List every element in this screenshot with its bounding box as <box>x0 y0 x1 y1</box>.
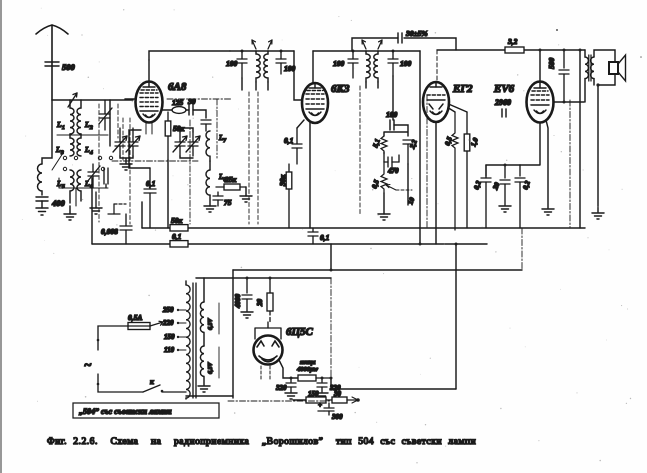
svg-text:150: 150 <box>308 390 319 398</box>
wire EV6 cathode <box>520 123 540 166</box>
IFT2 trimmer arrow <box>362 40 366 49</box>
coil L4 <box>77 134 81 156</box>
variable capacitor C1a (tuning) <box>113 128 127 156</box>
ground (speaker) <box>592 213 604 219</box>
tube 6K3 electrodes <box>306 84 324 116</box>
capacitor 400 <box>36 197 48 201</box>
wire EV6 cathode ground branch <box>546 120 548 208</box>
tube 6A8 electrodes <box>140 60 158 118</box>
ground (filter 2) <box>316 393 328 399</box>
tube EV6 envelope <box>527 82 554 123</box>
svg-text:100: 100 <box>333 59 345 68</box>
svg-text:Фиг. 2.2.6. Схема на радиоп: Фиг. 2.2.6. Схема на радиоприемника „Вор… <box>47 436 476 447</box>
output transformer core <box>589 55 591 81</box>
wire rectifier cathode <box>279 360 298 378</box>
antenna <box>36 25 68 100</box>
band switch contacts <box>52 153 113 171</box>
HV secondary top lead <box>203 278 205 302</box>
capacitor 100 (IFT2 right) <box>388 51 398 76</box>
capacitor 470 <box>384 152 399 167</box>
svg-text:100: 100 <box>386 110 398 119</box>
svg-text:20: 20 <box>256 299 264 308</box>
coil L7 (oscillator) <box>206 131 210 161</box>
dash-dot osc shield <box>167 99 231 224</box>
capacitor (padder, vertical plates) <box>104 168 108 188</box>
svg-text:1: 1 <box>62 125 65 131</box>
speaker <box>609 55 626 81</box>
capacitor 4000 (plate RC) <box>242 278 252 311</box>
capacitor 320 (filter 2) <box>317 378 327 392</box>
coil L6 <box>77 170 81 201</box>
svg-text:~: ~ <box>84 357 92 372</box>
wire 50k to gnd bus <box>167 160 169 228</box>
capacitor 100 (IFT2 left) <box>348 51 358 78</box>
ground <box>499 206 511 212</box>
svg-text:1,0: 1,0 <box>469 136 480 147</box>
resistor 3.2 <box>505 47 524 53</box>
capacitor 75 <box>213 192 223 206</box>
wire HV lead <box>232 270 234 398</box>
svg-text:150: 150 <box>164 333 175 341</box>
node <box>419 243 422 246</box>
capacitor 0.1 (cathode) <box>144 168 156 228</box>
svg-text:к: к <box>150 377 154 386</box>
capacitor 30 <box>189 105 193 115</box>
secondary winding 6.3V (a) <box>200 302 204 332</box>
scan left edge artifact <box>0 0 2 473</box>
wire antenna down to coupling coil <box>42 100 52 164</box>
svg-text:320: 320 <box>275 384 287 392</box>
wire EV6 plate <box>539 50 541 82</box>
svg-text:3,2: 3,2 <box>507 37 518 46</box>
svg-text:„504” със съветски лампи: „504” със съветски лампи <box>79 407 172 416</box>
band switch S1 <box>68 93 77 107</box>
capacitor (heater, small) <box>502 109 506 117</box>
wire IFT1 to 6K3 grid <box>294 51 302 100</box>
B- bus lower <box>92 243 487 245</box>
svg-text:300: 300 <box>331 413 343 421</box>
wire left column down <box>91 178 93 244</box>
capacitor 300 (bias) <box>318 403 334 415</box>
rectifier electrodes <box>257 341 279 362</box>
svg-text:100: 100 <box>400 59 412 68</box>
IFT2 trimmer arrow <box>378 40 382 49</box>
svg-text:10: 10 <box>406 196 416 206</box>
capacitor 0.2 (tone) <box>515 165 525 228</box>
IFT2 top wire <box>313 50 420 52</box>
svg-text:4000: 4000 <box>234 294 242 310</box>
resistor 50k (bus) <box>170 225 188 231</box>
node <box>352 50 355 53</box>
svg-text:30к: 30к <box>278 175 287 188</box>
capacitor 100 (IFT1 right) <box>276 51 286 74</box>
resistor 30 <box>332 397 358 403</box>
wire gang common <box>120 156 133 164</box>
wire B+ down right <box>579 50 581 228</box>
wire <box>297 120 304 128</box>
dash-dot screens mid <box>427 95 570 227</box>
svg-text:400: 400 <box>51 198 66 208</box>
wire EV6 grid node <box>486 164 520 166</box>
resistor 30k (screen) <box>286 164 292 228</box>
svg-text:20: 20 <box>491 181 501 192</box>
ground (4000) <box>241 312 253 318</box>
wire osc gang <box>180 128 193 158</box>
capacitor 100 (detector coupling) <box>390 120 394 130</box>
wire mid row <box>57 134 108 136</box>
tie point <box>108 204 126 214</box>
tube 6A8 envelope <box>136 82 163 123</box>
variable capacitor C1b <box>126 128 140 156</box>
svg-text:500: 500 <box>547 58 556 70</box>
ground <box>542 209 554 215</box>
wire secondary to speaker loop <box>594 50 615 212</box>
heater line <box>233 269 522 271</box>
wire IFT2 bottoms <box>366 82 378 88</box>
resistor 150 <box>306 397 332 403</box>
ground <box>36 208 48 215</box>
wire EG2 cathode down <box>435 122 437 244</box>
svg-text:4000μw: 4000μw <box>296 366 319 373</box>
resistor 0.1 (bus) <box>170 241 188 247</box>
capacitor (IF filter) <box>403 140 413 164</box>
wire B+ drop <box>419 51 421 244</box>
svg-text:2: 2 <box>89 125 93 131</box>
svg-text:2960: 2960 <box>494 98 511 107</box>
svg-text:0,1: 0,1 <box>284 136 293 145</box>
svg-text:ЕГ2: ЕГ2 <box>452 83 473 95</box>
resistor (EG2, box) <box>464 112 470 228</box>
transformer core <box>193 283 196 398</box>
resistor 125 (oval) <box>172 107 186 114</box>
svg-text:6Ц5С: 6Ц5С <box>286 326 314 338</box>
svg-text:0,1: 0,1 <box>172 232 181 241</box>
IFT1 trimmer arrow <box>268 40 272 49</box>
wire secondary mid <box>203 333 205 385</box>
capacitor 30+-5% <box>398 33 402 43</box>
svg-text:30±5%: 30±5% <box>405 29 428 38</box>
rectifier plate bracket <box>255 328 281 339</box>
coil L1 <box>70 100 74 134</box>
label box 504 <box>73 403 219 418</box>
fuse 0.5A <box>128 323 150 330</box>
resistor (plate RC box) <box>267 278 273 328</box>
svg-text:0,008: 0,008 <box>101 227 118 236</box>
wire IFT2 sec down <box>392 76 394 120</box>
wire primary ends <box>185 281 187 399</box>
secondary winding 6.3V (b) <box>200 346 204 376</box>
svg-text:5: 5 <box>62 184 65 190</box>
capacitor 0.1 (bus decoupling) <box>308 228 318 244</box>
node <box>241 50 244 53</box>
variable capacitor C2b <box>186 132 200 156</box>
svg-text:0,2: 0,2 <box>472 179 483 190</box>
resistor (EG2 plate load, zigzag) <box>452 112 458 230</box>
IFT1 trimmer arrow <box>252 40 256 49</box>
resistor 50k (grid leak) <box>165 112 171 160</box>
capacitor 0.1 (6K3 cathode) <box>292 128 302 164</box>
dash-dot PSU shield <box>330 278 332 376</box>
svg-text:110: 110 <box>164 346 175 354</box>
wire coil bottoms <box>69 206 71 214</box>
svg-text:5,1: 5,1 <box>371 138 382 149</box>
IFT1 secondary coil <box>264 51 268 82</box>
mains switch K <box>143 385 186 392</box>
IFT2 primary coil <box>366 51 370 82</box>
wire cathode join <box>129 161 150 168</box>
capacitor (osc top) <box>201 120 211 131</box>
speaker field choke 4000uW <box>298 375 331 381</box>
coil L8 (oscillator feedback) <box>206 170 210 195</box>
heater stubs <box>261 366 270 380</box>
tube EG2 envelope <box>423 82 449 122</box>
coil L3 <box>70 134 74 156</box>
svg-text:0,1: 0,1 <box>320 233 329 242</box>
ground <box>90 208 102 214</box>
rectifier tube 6C5S envelope <box>254 336 283 365</box>
capacitor 500 (plate bypass) <box>559 50 569 102</box>
svg-text:L: L <box>218 134 223 142</box>
IFT2 secondary coil <box>374 51 378 82</box>
svg-text:220: 220 <box>162 319 174 327</box>
svg-text:6,3V: 6,3V <box>208 362 214 375</box>
capacitor 500 (antenna series) <box>45 62 59 66</box>
wire <box>109 100 111 146</box>
coil La (antenna coupling) <box>38 164 43 195</box>
svg-text:100: 100 <box>226 59 238 68</box>
svg-text:0,1: 0,1 <box>146 179 155 188</box>
svg-text:4: 4 <box>89 150 93 156</box>
output transformer primary <box>585 50 588 102</box>
PSU top wire <box>196 277 331 279</box>
ground <box>240 196 252 202</box>
tap selector arrow <box>150 321 163 326</box>
IFT1 primary coil <box>256 51 260 82</box>
dashed gang lines <box>99 104 130 224</box>
feedback line 30+-5% <box>352 38 456 51</box>
trimmer capacitor (input) <box>99 100 112 130</box>
output transformer secondary <box>591 57 594 79</box>
ground <box>64 214 76 220</box>
svg-text:6,3V: 6,3V <box>208 318 214 331</box>
svg-text:7: 7 <box>224 139 227 144</box>
wire 6K3 plate to IFT2 <box>312 51 314 84</box>
wire PSU risers <box>330 244 332 270</box>
wire <box>163 109 173 111</box>
wire pot to ground <box>383 193 385 214</box>
capacitor 320 (filter 1) <box>286 378 296 392</box>
svg-text:30: 30 <box>333 390 342 398</box>
svg-text:250: 250 <box>162 306 174 314</box>
wire bus left riser <box>141 202 143 228</box>
wire switch to HV lead <box>186 395 233 397</box>
resistor 25k <box>216 184 246 190</box>
wire to osc coil <box>193 110 206 118</box>
ground <box>378 214 390 220</box>
svg-text:0,5: 0,5 <box>370 178 381 189</box>
resistor 510k (diode load) <box>381 136 387 154</box>
wire input top bus <box>52 99 133 101</box>
ground <box>204 206 216 212</box>
wire 6A8 grid left <box>125 98 136 100</box>
svg-text:L: L <box>218 173 223 181</box>
ground bus upper <box>142 227 585 229</box>
ground (transformer CT) <box>198 386 210 392</box>
svg-text:6А8: 6А8 <box>168 81 187 93</box>
wire EV6 plate to OT <box>553 101 584 103</box>
wire 6K3 cathode down <box>309 122 311 228</box>
B+ return wire <box>331 378 456 389</box>
tube EG2 electrodes <box>427 83 445 115</box>
IFT1 top wire <box>230 50 294 52</box>
transformer primary winding <box>186 285 190 398</box>
svg-text:25к: 25к <box>224 175 237 184</box>
svg-text:30: 30 <box>187 97 196 106</box>
wire EG2 top cap (dashed shield) <box>436 50 438 82</box>
svg-text:75: 75 <box>224 198 232 207</box>
dashed AVC line <box>359 86 361 214</box>
svg-text:470: 470 <box>387 167 399 175</box>
capacitor 100 (IFT1 left) <box>237 51 247 78</box>
wire 6A8 bottom stubs <box>146 122 152 134</box>
capacitor 0.2 (coupling) <box>481 165 491 228</box>
wire detector node <box>384 125 408 136</box>
svg-text:0,2: 0,2 <box>521 179 532 190</box>
ground (filter 1) <box>285 393 297 399</box>
wire EG2 right connections <box>449 104 468 112</box>
svg-text:+: + <box>318 401 322 409</box>
tube 6K3 envelope <box>302 83 328 123</box>
wire <box>245 187 247 196</box>
wire between coils <box>209 161 211 206</box>
dash-dot chassis line <box>228 400 330 402</box>
variable capacitor C2a (osc) <box>173 132 187 156</box>
wire 6A8 cathode left <box>129 130 141 161</box>
svg-text:50к: 50к <box>171 216 183 225</box>
potentiometer arrow <box>386 185 412 191</box>
coil L2 <box>77 100 81 134</box>
dashed shield IFT1 <box>249 92 258 224</box>
coil L5 <box>70 170 74 203</box>
wire switch row <box>59 178 108 206</box>
dash-dot gang link <box>112 160 198 162</box>
capacitor (padding, variable) <box>87 164 100 208</box>
capacitor 0.008 (AVC line) <box>120 214 132 244</box>
capacitor 20 (electrolytic) <box>500 165 510 205</box>
wire 6A8 plate to IFT1 <box>149 51 230 60</box>
wire <box>41 201 43 208</box>
node <box>392 50 395 53</box>
scan speck <box>556 29 558 31</box>
wire cap chain down <box>407 164 409 205</box>
svg-text:0,5А: 0,5А <box>128 313 142 322</box>
wire IFT1 bottoms <box>242 78 268 90</box>
B+ bus top <box>437 49 585 51</box>
bias divider wire <box>293 399 306 401</box>
primary taps <box>177 309 186 351</box>
svg-text:EV6: EV6 <box>493 83 515 95</box>
node <box>280 50 283 53</box>
svg-text:500: 500 <box>62 62 76 72</box>
ground <box>120 164 132 170</box>
potentiometer (volume) <box>381 162 387 193</box>
tube EV6 electrodes <box>531 83 549 114</box>
svg-text:6К3: 6К3 <box>331 83 350 95</box>
